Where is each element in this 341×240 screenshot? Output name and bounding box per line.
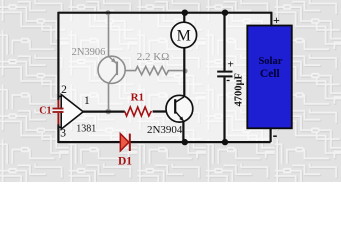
- svg-text:1: 1: [84, 95, 90, 107]
- svg-text:3: 3: [60, 128, 66, 140]
- svg-text:M: M: [177, 28, 191, 45]
- svg-text:Cell: Cell: [260, 68, 280, 80]
- svg-text:4700µF: 4700µF: [233, 73, 244, 106]
- svg-text:C1: C1: [39, 106, 51, 117]
- svg-text:+: +: [273, 13, 280, 27]
- svg-text:Solar: Solar: [258, 56, 282, 67]
- svg-text:1381: 1381: [76, 124, 96, 135]
- svg-text:2N3906: 2N3906: [72, 47, 106, 58]
- svg-text:2: 2: [61, 84, 67, 96]
- svg-text:D1: D1: [118, 156, 132, 168]
- svg-text:2N3904: 2N3904: [147, 124, 183, 136]
- svg-text:+: +: [228, 59, 234, 71]
- svg-text:2.2 KΩ: 2.2 KΩ: [137, 51, 170, 63]
- svg-text:R1: R1: [131, 91, 144, 103]
